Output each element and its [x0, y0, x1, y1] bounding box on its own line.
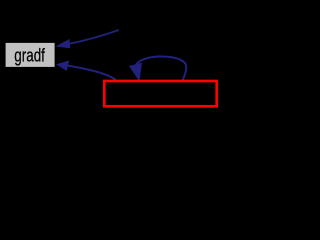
- edge: caller (top right) to gradf: [69, 30, 118, 44]
- arrowhead at gradf (upper): [57, 40, 70, 49]
- svg-text:gradf: gradf: [14, 45, 45, 65]
- arrowhead at gradf (lower): [57, 61, 69, 71]
- edge: red node to gradf: [68, 66, 116, 80]
- node (truncated, red border): [104, 81, 216, 106]
- self-loop arrowhead: [130, 63, 142, 80]
- self-loop edge on red node: [135, 56, 186, 80]
- node gradf (current function, grey box): [6, 43, 55, 67]
